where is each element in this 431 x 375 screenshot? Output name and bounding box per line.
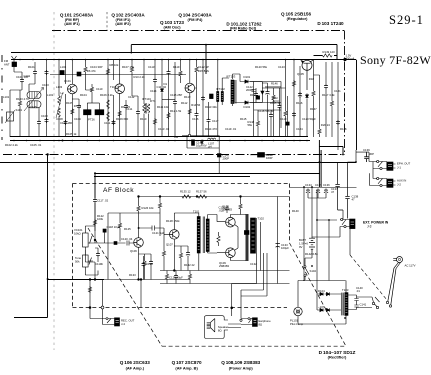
svg-text:C113 .02: C113 .02 xyxy=(158,127,170,131)
capacitor C9 xyxy=(124,104,128,109)
AF block left dashed edge xyxy=(72,184,74,308)
svg-text:Q 108,109 2SB383: Q 108,109 2SB383 xyxy=(221,360,260,365)
resistor R12 xyxy=(167,112,170,119)
svg-text:C132: C132 xyxy=(250,262,257,266)
svg-text:R126 10k: R126 10k xyxy=(142,206,155,210)
mechanical link diagonal dashed xyxy=(88,228,162,346)
svg-text:C135: C135 xyxy=(315,183,322,187)
junction dot xyxy=(344,317,346,319)
label divider dashes x107 xyxy=(106,12,108,30)
svg-text:C125 30µF: C125 30µF xyxy=(169,276,183,280)
resistor R9 xyxy=(118,110,121,117)
coupling capacitor C24 xyxy=(258,153,265,158)
resistor R8 xyxy=(106,68,109,75)
svg-text:R102 2.2k: R102 2.2k xyxy=(5,143,18,147)
svg-text:C110: C110 xyxy=(96,87,103,91)
wire xyxy=(46,60,48,137)
wire to Q107 base xyxy=(160,228,170,234)
svg-text:C121: C121 xyxy=(334,89,341,93)
wire bar antenna leads xyxy=(29,76,39,137)
wire T103 bottom lead xyxy=(298,315,346,324)
svg-text:R14 56: R14 56 xyxy=(191,103,200,107)
junction dots on B+ bus xyxy=(19,59,295,61)
svg-text:C134: C134 xyxy=(305,183,312,187)
output transformer T102 core xyxy=(246,214,248,261)
svg-text:R109 680: R109 680 xyxy=(116,117,129,121)
svg-text:R116: R116 xyxy=(296,101,303,105)
electrolytic C21 xyxy=(298,92,302,98)
svg-text:C141: C141 xyxy=(360,303,367,307)
wire xyxy=(343,162,356,220)
svg-text:C118 10µF: C118 10µF xyxy=(107,225,121,229)
capacitor C blob xyxy=(286,122,289,125)
wire xyxy=(299,66,301,137)
battery B1 xyxy=(309,237,315,252)
svg-text:AC 117V: AC 117V xyxy=(405,264,416,268)
wire xyxy=(10,83,22,121)
AF block right dashed edge xyxy=(289,184,291,244)
capacitor C101 xyxy=(20,78,24,83)
wire xyxy=(125,100,127,137)
resistor R13 xyxy=(179,70,182,77)
AF block top dashed edge xyxy=(73,183,290,185)
wire xyxy=(306,99,308,137)
svg-text:.01: .01 xyxy=(356,289,360,293)
wire reg corner xyxy=(319,147,343,155)
svg-text:C 6P: C 6P xyxy=(268,109,274,113)
capacitor C131 xyxy=(225,206,229,214)
wire power rail xyxy=(303,280,346,282)
svg-text:R140: R140 xyxy=(292,209,299,213)
svg-text:200P: 200P xyxy=(223,157,230,161)
svg-text:R114: R114 xyxy=(250,93,257,97)
junction dots on ground bus xyxy=(13,140,308,142)
wire verticals to rec jack xyxy=(90,280,141,319)
svg-text:AF Block: AF Block xyxy=(103,187,134,194)
svg-text:C111 .01: C111 .01 xyxy=(104,121,115,125)
wire speaker feed junctions xyxy=(231,307,233,309)
svg-text:C109: C109 xyxy=(74,117,81,121)
svg-text:PT26: PT26 xyxy=(88,118,95,122)
wire jack feed xyxy=(232,296,267,319)
wire xyxy=(94,203,96,231)
wire Q101 emitter xyxy=(71,94,73,137)
svg-text:C101 10P: C101 10P xyxy=(16,75,29,79)
svg-text:R132 22: R132 22 xyxy=(184,263,195,267)
resistor R14 xyxy=(188,108,191,115)
resistor R136 feedback xyxy=(188,273,191,280)
capacitor C105 xyxy=(45,118,49,123)
scattered value labels xyxy=(16,65,347,131)
junction dot xyxy=(183,217,185,219)
svg-text:R133: R133 xyxy=(129,273,136,277)
wire xyxy=(235,102,262,104)
tuner box top dash-dot border xyxy=(52,30,345,32)
wire battery feed xyxy=(304,188,312,281)
svg-text:Q107: Q107 xyxy=(166,243,173,247)
wire Q101 collector xyxy=(71,60,73,84)
ceramic filter CF1 black xyxy=(84,110,92,115)
tuner box bottom dash-dot border xyxy=(3,154,345,156)
AM bar antenna winding 2 xyxy=(27,101,41,108)
capacitor C7 xyxy=(77,104,81,109)
svg-text:47: 47 xyxy=(331,190,335,194)
capacitor C137 xyxy=(335,162,343,210)
resistor R19 xyxy=(312,90,315,97)
svg-text:C104 30P: C104 30P xyxy=(90,65,103,69)
wire xyxy=(9,121,11,137)
black cap blob xyxy=(210,94,214,99)
junction dot xyxy=(311,186,313,188)
wire T101 to Q109 base xyxy=(208,252,226,254)
svg-text:(FM Ratio Det): (FM Ratio Det) xyxy=(230,26,257,31)
wire switch to rail xyxy=(298,281,305,308)
svg-text:C136: C136 xyxy=(323,183,330,187)
filter cap C141 xyxy=(354,303,358,310)
svg-text:R115: R115 xyxy=(240,117,247,121)
ground bus lower wire xyxy=(10,140,310,142)
transistor Q108 xyxy=(226,217,236,227)
wire xyxy=(202,60,204,137)
wire feed to jacks xyxy=(356,150,373,179)
svg-text:(AM IF2): (AM IF2) xyxy=(115,21,131,26)
capacitor C104 xyxy=(45,70,49,75)
wire rectifier rows xyxy=(317,281,341,311)
tuner box right dash-dot border xyxy=(344,31,346,155)
resistor R7 xyxy=(90,86,93,93)
capacitor C11 xyxy=(153,78,157,83)
svg-text:R105: R105 xyxy=(66,101,73,105)
electrolytic C133 xyxy=(276,244,280,248)
AC connector contacts xyxy=(372,297,392,309)
svg-text:R105 1k: R105 1k xyxy=(66,132,77,136)
svg-text:47: 47 xyxy=(352,198,356,202)
svg-text:Q 106 2SC633: Q 106 2SC633 xyxy=(120,360,150,365)
transistor Q107 xyxy=(170,230,180,240)
svg-text:R120 56k: R120 56k xyxy=(255,65,268,69)
svg-text:R125: R125 xyxy=(124,227,131,231)
svg-text:C103: C103 xyxy=(41,114,48,118)
wire xyxy=(137,96,139,137)
resistor R130 xyxy=(179,252,182,259)
svg-text:C119: C119 xyxy=(280,117,287,121)
capacitor C128 xyxy=(142,262,146,267)
wire reg bottom drop xyxy=(319,140,321,187)
ferrite bar arrow xyxy=(24,88,44,112)
junction dots xyxy=(94,239,96,241)
svg-text:L102: L102 xyxy=(60,65,67,69)
junction dot xyxy=(140,279,142,281)
capacitor C6 xyxy=(64,120,68,125)
svg-text:C105 .01: C105 .01 xyxy=(30,143,42,147)
svg-text:160P: 160P xyxy=(266,156,273,160)
resistor R135 inline xyxy=(182,195,191,198)
wire to earphone jack xyxy=(241,319,246,325)
svg-text:.022: .022 xyxy=(219,209,225,213)
black core blob xyxy=(60,71,64,75)
resistor R21 xyxy=(330,100,333,107)
junction dot xyxy=(205,44,207,46)
wire Q107 collector xyxy=(174,213,199,229)
junction dot xyxy=(342,154,344,156)
svg-text:10kΩ: 10kΩ xyxy=(74,232,81,236)
svg-text:10µF/6V: 10µF/6V xyxy=(196,144,207,148)
tone control VR102 xyxy=(83,250,94,275)
resistor R11 xyxy=(153,118,156,125)
capacitor C6P xyxy=(269,113,273,118)
tuning coil L3 with slug arrows xyxy=(58,96,60,105)
resistor R126 load xyxy=(137,205,140,212)
black bead blob xyxy=(77,72,81,76)
wire rail drop right xyxy=(336,45,338,60)
svg-text:R137 56: R137 56 xyxy=(196,190,207,194)
diode D1 AM osc xyxy=(160,87,163,92)
svg-text:C123: C123 xyxy=(278,65,285,69)
junction dot xyxy=(138,227,140,229)
svg-text:R112: R112 xyxy=(181,101,188,105)
svg-text:D102: D102 xyxy=(244,105,251,109)
junction dot xyxy=(94,172,96,174)
svg-text:Q101: Q101 xyxy=(64,79,71,83)
svg-text:R117 3.3k: R117 3.3k xyxy=(322,93,335,97)
svg-text:C124: C124 xyxy=(296,127,303,131)
wire Q109 collector xyxy=(230,258,246,261)
svg-text:S102: S102 xyxy=(310,269,317,273)
resistor R129 xyxy=(162,250,165,257)
open terminal circle xyxy=(101,306,104,309)
wire xyxy=(107,213,109,280)
svg-text:C117: C117 xyxy=(212,119,219,123)
electrolytic C146 black xyxy=(192,140,195,146)
svg-text:R10 2.2k: R10 2.2k xyxy=(134,75,146,79)
svg-text:µH: µH xyxy=(208,145,212,149)
wire T101 to Q108 base xyxy=(208,215,226,222)
svg-text:Q106: Q106 xyxy=(130,249,137,253)
svg-text:C126: C126 xyxy=(146,262,153,266)
svg-text:D101: D101 xyxy=(244,75,251,79)
svg-text:R115 1k: R115 1k xyxy=(270,101,281,105)
svg-text:D1: D1 xyxy=(164,82,168,86)
resistor R133 top xyxy=(239,203,242,210)
electrolytic C122 xyxy=(251,90,255,92)
wire: left board drop xyxy=(14,155,104,318)
wire xyxy=(195,60,197,88)
wire T103 top lead xyxy=(345,281,347,293)
AC interlock diagonal dashed xyxy=(350,255,387,300)
AGC long wire xyxy=(0,162,356,164)
AC plug xyxy=(393,257,402,269)
AF lower rail wire xyxy=(160,283,290,285)
wire AGC top xyxy=(262,60,286,88)
svg-text:AM: AM xyxy=(174,135,179,139)
capacitor C120 xyxy=(149,260,153,265)
junction dot xyxy=(328,219,330,221)
wire battery to switch xyxy=(305,252,312,262)
wire xyxy=(168,60,170,137)
resistor R127 emitter xyxy=(143,260,146,267)
wire to connector xyxy=(357,297,373,308)
svg-text:100k: 100k xyxy=(97,217,104,221)
svg-text:R15 8.2k: R15 8.2k xyxy=(198,69,210,73)
wire xyxy=(86,60,93,90)
svg-text:(AF Amp.): (AF Amp.) xyxy=(126,365,145,370)
svg-text:R149 120: R149 120 xyxy=(323,50,336,54)
svg-text:R6 47k: R6 47k xyxy=(87,69,96,73)
svg-text:R110: R110 xyxy=(140,117,147,121)
svg-text:30P: 30P xyxy=(369,152,374,156)
svg-text:IFT103: IFT103 xyxy=(226,75,235,79)
wire Q102 xyxy=(119,60,121,137)
FM B+ rail wire xyxy=(131,44,337,46)
capacitor C22 xyxy=(324,84,328,89)
svg-text:R128 150k: R128 150k xyxy=(166,219,180,223)
resistor R17 xyxy=(284,110,287,117)
resistor R149 horizontal xyxy=(323,54,333,57)
AF main rail wire xyxy=(139,196,290,198)
svg-text:R147: R147 xyxy=(310,107,317,111)
speaker SP xyxy=(204,316,228,339)
AGC wire xyxy=(50,74,186,76)
svg-text:L101: L101 xyxy=(3,95,10,99)
wire xyxy=(65,60,67,137)
wire detector mesh xyxy=(250,82,281,137)
svg-text:(AF Amp. B): (AF Amp. B) xyxy=(175,365,198,370)
svg-text:C113: C113 xyxy=(148,65,155,69)
capacitor C15 xyxy=(201,96,205,101)
open terminal circles xyxy=(240,319,242,321)
trimmer CT101 xyxy=(5,110,15,123)
transistor Q106 xyxy=(134,238,144,248)
svg-text:S101: S101 xyxy=(16,108,23,112)
FM antenna terminal xyxy=(12,56,17,62)
svg-text:400mA: 400mA xyxy=(346,57,355,61)
wire tone xyxy=(85,271,98,276)
resistor R128 xyxy=(158,202,161,209)
junction dot xyxy=(316,219,318,221)
earphone jack J5 xyxy=(246,318,257,327)
svg-text:C120 50µF: C120 50µF xyxy=(302,117,316,121)
diode blob xyxy=(261,91,264,94)
AF feed wire 2 xyxy=(94,176,250,178)
wire secondary to caps xyxy=(348,295,357,310)
electrolytic C134 xyxy=(306,189,310,195)
svg-text:L3: L3 xyxy=(61,91,65,95)
svg-text:C115 25P: C115 25P xyxy=(170,93,182,97)
ceramic filter CF2 black xyxy=(95,110,104,115)
wire right leg xyxy=(337,62,339,150)
svg-text:R107 15k: R107 15k xyxy=(122,65,135,69)
IF transformer IFT102 xyxy=(217,60,229,137)
wire xyxy=(250,154,272,156)
svg-text:50k: 50k xyxy=(75,260,80,264)
svg-text:Q 107 2SC870: Q 107 2SC870 xyxy=(172,360,202,365)
junction dot xyxy=(319,161,321,163)
junction dot xyxy=(46,153,48,155)
svg-text:(FM IF4): (FM IF4) xyxy=(188,17,204,22)
power board bottom dashed edge xyxy=(162,345,346,347)
volume control VC101 xyxy=(83,203,96,262)
svg-text:R103 4.7k: R103 4.7k xyxy=(16,97,29,101)
filter cap C140 xyxy=(354,295,358,303)
wire: right rail drop xyxy=(356,60,358,150)
svg-text:T103: T103 xyxy=(342,288,349,292)
capacitor C8 xyxy=(112,120,116,125)
wire J3 drops xyxy=(312,227,350,256)
resistor R10 xyxy=(130,66,133,73)
transistor Q102 xyxy=(115,84,125,94)
wire xyxy=(144,60,149,137)
black blob cap xyxy=(256,96,259,99)
svg-text:R101: R101 xyxy=(28,65,35,69)
power switch S102 xyxy=(304,262,309,280)
svg-text:C121 5µF: C121 5µF xyxy=(152,231,165,235)
svg-text:R104: R104 xyxy=(80,93,87,97)
svg-text:C118 5P: C118 5P xyxy=(258,109,269,113)
output transformer T102 winding xyxy=(251,218,256,253)
svg-text:100µF: 100µF xyxy=(281,246,289,250)
wire rail drop left xyxy=(130,45,132,53)
svg-text:2000P: 2000P xyxy=(246,88,254,92)
svg-text:C114: C114 xyxy=(150,89,157,93)
svg-text:C122 6P: C122 6P xyxy=(198,65,209,69)
svg-text:ANT: ANT xyxy=(4,63,10,67)
resistor R124 bias xyxy=(118,222,121,229)
svg-text:(Regulator): (Regulator) xyxy=(287,16,308,21)
capacitor C16 xyxy=(207,118,211,123)
svg-text:8Ω: 8Ω xyxy=(259,323,263,327)
svg-text:56k: 56k xyxy=(248,123,253,127)
wire aux verticals xyxy=(317,191,329,281)
scattered value labels 2 xyxy=(4,59,318,267)
wire: AF input drop xyxy=(94,173,96,198)
capacitor C14 xyxy=(195,112,199,117)
resistor R122 xyxy=(93,219,96,226)
svg-text:C107 18P: C107 18P xyxy=(60,121,73,125)
resistor R101 xyxy=(18,100,21,107)
wire AM det feed xyxy=(182,136,219,154)
resistor R20 xyxy=(318,128,321,135)
black cap C147 xyxy=(217,154,221,157)
driver transformer T101 xyxy=(197,213,209,271)
diode D short xyxy=(201,140,204,145)
svg-text:R113: R113 xyxy=(184,95,191,99)
wire collector/emitter rail xyxy=(294,59,357,61)
capacitor C23 xyxy=(336,120,340,125)
wire xyxy=(90,309,104,325)
svg-text:R135 12: R135 12 xyxy=(180,190,191,194)
diode D102 xyxy=(244,101,250,104)
resistor R6 xyxy=(84,66,87,73)
ground bus upper wire xyxy=(10,136,308,138)
rectifier diode D106 xyxy=(319,308,325,311)
capacitor C139 xyxy=(364,152,369,162)
wire xyxy=(132,60,138,96)
electrolytic C122b xyxy=(186,251,190,257)
junction dot xyxy=(62,140,64,142)
svg-text:R18: R18 xyxy=(309,77,315,81)
electrolytic C136 xyxy=(324,189,328,195)
svg-text:L101: L101 xyxy=(47,93,54,97)
svg-text:C120 .04: C120 .04 xyxy=(121,237,133,241)
electrolytic C118 blob xyxy=(103,229,106,232)
svg-text:R146: R146 xyxy=(271,82,278,86)
svg-text:IFT104: IFT104 xyxy=(142,97,151,101)
svg-text:L103: L103 xyxy=(56,85,63,89)
svg-text:J-1: J-1 xyxy=(397,166,401,170)
junction dot xyxy=(311,265,313,267)
svg-text:R20 24: R20 24 xyxy=(321,123,330,127)
electrolytic C135 xyxy=(316,189,320,195)
